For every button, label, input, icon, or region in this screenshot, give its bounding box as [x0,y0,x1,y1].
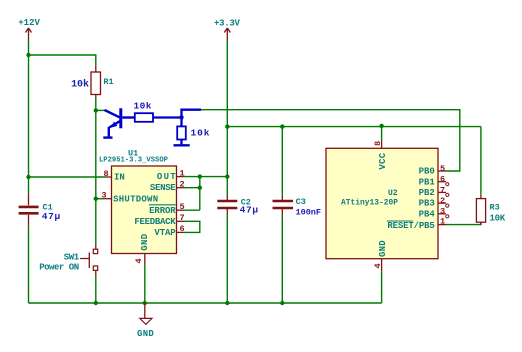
svg-text:3: 3 [440,207,445,217]
svg-text:GND: GND [378,240,388,257]
svg-text:2: 2 [440,196,445,206]
svg-text:GND: GND [137,329,154,339]
svg-text:1: 1 [440,217,445,227]
svg-text:8: 8 [104,169,109,179]
svg-text:PB1: PB1 [419,177,436,187]
svg-text:U2: U2 [388,189,398,198]
svg-text:+3.3V: +3.3V [214,19,240,29]
svg-text:SW1: SW1 [64,252,80,262]
svg-text:5: 5 [440,164,445,174]
svg-text:VTAP: VTAP [154,228,176,238]
svg-text:47µ: 47µ [42,211,61,222]
svg-text:1: 1 [180,168,185,178]
svg-text:10K: 10K [490,214,506,224]
svg-text:OUT: OUT [157,172,176,182]
svg-text:R3: R3 [490,203,500,213]
svg-text:4: 4 [373,263,383,268]
svg-text:LP2951-3.3_VSSOP: LP2951-3.3_VSSOP [99,157,168,165]
svg-text:PB4: PB4 [419,209,436,219]
svg-text:Power ON: Power ON [39,263,79,273]
svg-text:PB0: PB0 [419,167,435,177]
svg-text:C3: C3 [296,197,306,207]
svg-text:ATtiny13-20P: ATtiny13-20P [341,199,398,208]
svg-text:3: 3 [101,191,106,201]
svg-text:FEEDBACK: FEEDBACK [134,217,176,227]
svg-text:RESET/PB5: RESET/PB5 [387,221,434,231]
svg-text:10k: 10k [71,78,89,90]
svg-text:5: 5 [180,202,185,212]
svg-text:IN: IN [114,172,125,182]
svg-text:PB2: PB2 [419,188,435,198]
svg-text:SHUTDOWN: SHUTDOWN [113,194,158,204]
svg-text:PB3: PB3 [419,199,435,209]
svg-text:6: 6 [180,224,185,234]
svg-text:VCC: VCC [378,152,388,169]
svg-text:47µ: 47µ [240,205,259,216]
svg-text:SENSE: SENSE [150,183,176,193]
svg-text:GND: GND [140,233,150,250]
svg-text:7: 7 [440,185,445,195]
svg-text:100nF: 100nF [296,208,322,218]
svg-text:ERROR: ERROR [149,206,176,216]
svg-text:8: 8 [373,141,383,146]
svg-text:4: 4 [134,258,144,263]
svg-text:7: 7 [180,213,185,223]
svg-text:R1: R1 [103,77,113,87]
svg-text:2: 2 [180,180,185,190]
svg-text:10k: 10k [134,100,152,111]
svg-text:10k: 10k [191,128,210,139]
svg-text:6: 6 [440,175,445,185]
svg-text:+12V: +12V [18,18,40,28]
